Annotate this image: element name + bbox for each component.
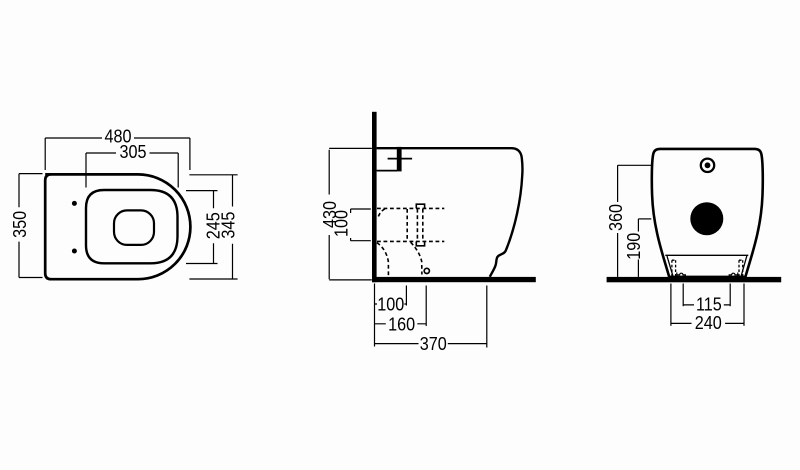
top view seat ring outline: [86, 190, 178, 263]
svg-text:100: 100: [377, 293, 404, 314]
rear bottom extension far left: [670, 284, 672, 326]
dimension 240 line: [671, 322, 744, 324]
floor line (side view): [372, 277, 536, 282]
dimension 480 line: [45, 137, 190, 139]
hidden drain pipe verticals: [417, 209, 422, 241]
dimension 350 extension lines: [19, 174, 43, 278]
hidden line upper horizontal: [377, 207, 444, 209]
dimension 115 line: [683, 304, 730, 306]
dimension 190 line: [637, 219, 639, 277]
dimension 160 line: [375, 323, 427, 325]
rear skirt left slant: [667, 256, 673, 277]
dimension 430 line: [328, 150, 330, 279]
dimension 100 vertical extension lines: [351, 209, 371, 241]
top view outer ceramic outline: [45, 174, 190, 279]
bottom extension line at drain center: [405, 286, 407, 306]
rear view ceramic outline: [652, 149, 763, 277]
left fixing bracket hidden lines: [672, 260, 676, 277]
hidden diagonal upper-left: [378, 209, 385, 219]
dimension 430 extension lines: [329, 148, 372, 280]
dimension 345 line: [232, 175, 234, 279]
rear bottom extension inner left: [682, 284, 684, 307]
dimension 100 bottom stubs: [375, 303, 407, 305]
dimension 245 extension lines: [186, 191, 218, 264]
hidden trap curve lower-left: [377, 243, 389, 277]
drain hole: [690, 202, 723, 235]
hidden outlet curve right: [411, 242, 422, 274]
svg-text:350: 350: [9, 211, 30, 238]
right fixing foot: [729, 273, 738, 278]
dimension 100 vertical line stubs: [350, 209, 352, 241]
dimension 305 line: [86, 152, 178, 154]
floor line (rear view): [607, 277, 782, 282]
dimension 245 line: [213, 191, 215, 264]
inlet circle dot: [705, 162, 711, 168]
water inlet bar: [397, 147, 402, 172]
svg-text:100: 100: [331, 210, 352, 237]
dimension 370 line: [375, 343, 487, 345]
rear skirt horizontal line: [665, 254, 748, 256]
bottom extension line at front: [486, 286, 488, 348]
wall line: [372, 112, 377, 282]
dimension 305 extension lines: [86, 153, 178, 188]
dimension 360 extension line: [618, 164, 652, 166]
left fixing foot: [677, 273, 686, 278]
dimension 360 line: [617, 165, 619, 277]
svg-text:370: 370: [420, 333, 447, 354]
bottom extension line at wall: [374, 284, 376, 347]
hidden line lower horizontal: [377, 240, 444, 242]
svg-text:360: 360: [605, 204, 626, 231]
hinge hole upper: [72, 201, 77, 206]
dimension 190 extension line: [638, 218, 651, 220]
rear bottom extension far right: [743, 284, 745, 326]
bottom extension line at outlet: [425, 286, 427, 327]
dimension 350 line: [18, 174, 20, 278]
svg-text:305: 305: [120, 141, 147, 162]
svg-text:240: 240: [695, 312, 722, 333]
inlet circle outer: [701, 159, 714, 172]
outlet circle: [424, 268, 429, 273]
top view bowl opening: [114, 210, 154, 245]
dimension 345 extension lines: [189, 175, 237, 279]
svg-text:190: 190: [623, 232, 644, 259]
rear skirt right slant: [741, 256, 747, 277]
right fixing bracket hidden lines: [739, 260, 743, 277]
water inlet connector to wall: [377, 170, 397, 172]
drain pipe top cap: [416, 204, 424, 208]
dimension 480 extension lines: [45, 138, 190, 170]
svg-text:160: 160: [388, 313, 415, 334]
drain pipe bottom cap: [416, 241, 424, 245]
hidden drain left vertical: [406, 209, 408, 241]
svg-text:345: 345: [218, 212, 239, 239]
water inlet cross line: [388, 158, 413, 160]
side profile outline: [377, 148, 523, 277]
rear bottom extension inner right: [729, 284, 731, 307]
hinge hole lower: [72, 249, 77, 254]
